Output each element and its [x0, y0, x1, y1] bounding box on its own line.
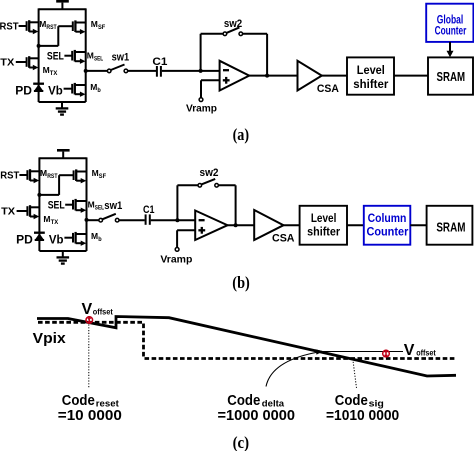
- svg-text:RST: RST: [0, 21, 19, 32]
- svg-text:(c): (c): [233, 433, 250, 451]
- svg-text:C1: C1: [152, 56, 167, 68]
- svg-text:(a): (a): [233, 125, 250, 144]
- svg-text:SRAM: SRAM: [437, 70, 466, 84]
- svg-text:CSA: CSA: [272, 233, 295, 245]
- svg-text:Vramp: Vramp: [160, 254, 192, 266]
- svg-text:M: M: [43, 65, 50, 75]
- svg-text:=1010 0000: =1010 0000: [326, 407, 399, 424]
- svg-text:Vramp: Vramp: [186, 103, 217, 115]
- svg-text:Level: Level: [311, 211, 337, 225]
- svg-text:shifter: shifter: [307, 225, 340, 239]
- svg-text:TX: TX: [50, 71, 58, 77]
- svg-text:=10 0000: =10 0000: [58, 407, 122, 424]
- svg-text:C1: C1: [143, 204, 155, 216]
- svg-text:Level: Level: [357, 63, 385, 77]
- svg-text:Vb: Vb: [48, 86, 63, 98]
- svg-text:SF: SF: [98, 25, 106, 31]
- svg-text:SEL: SEL: [47, 51, 64, 63]
- svg-text:Vpix: Vpix: [33, 330, 67, 347]
- svg-text:TX: TX: [0, 57, 14, 68]
- svg-text:RST: RST: [46, 25, 57, 31]
- svg-text:V: V: [82, 301, 93, 318]
- svg-text:sw1: sw1: [112, 52, 130, 64]
- svg-text:(b): (b): [232, 273, 250, 292]
- svg-text:SEL: SEL: [94, 57, 103, 63]
- svg-text:SRAM: SRAM: [436, 221, 465, 235]
- svg-text:M: M: [87, 51, 94, 61]
- svg-text:offset: offset: [93, 306, 113, 316]
- svg-text:offset: offset: [416, 348, 436, 358]
- svg-text:Counter: Counter: [366, 225, 408, 239]
- svg-text:V: V: [404, 342, 415, 359]
- svg-text:Counter: Counter: [435, 23, 467, 37]
- svg-text:CSA: CSA: [317, 83, 339, 95]
- svg-text:sw2: sw2: [224, 18, 242, 30]
- svg-text:sw1: sw1: [104, 200, 122, 212]
- svg-text:shifter: shifter: [353, 77, 388, 91]
- svg-text:M: M: [39, 19, 46, 29]
- svg-text:b: b: [97, 88, 101, 94]
- svg-text:M: M: [90, 82, 97, 92]
- svg-text:M: M: [91, 19, 98, 29]
- svg-text:PD: PD: [15, 86, 32, 98]
- svg-text:Column: Column: [368, 211, 407, 225]
- svg-text:=1000 0000: =1000 0000: [218, 407, 296, 424]
- svg-text:sw2: sw2: [200, 167, 219, 179]
